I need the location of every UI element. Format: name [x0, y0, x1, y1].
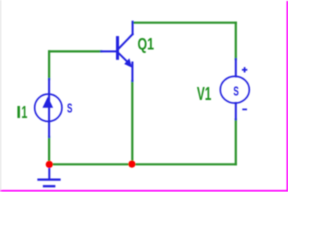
svg-text:V1: V1	[197, 84, 212, 104]
svg-text:S: S	[67, 102, 72, 116]
svg-text:Q1: Q1	[138, 36, 155, 54]
svg-text:1: 1	[21, 102, 27, 122]
svg-text:I: I	[16, 102, 21, 122]
svg-text:S: S	[233, 85, 238, 99]
